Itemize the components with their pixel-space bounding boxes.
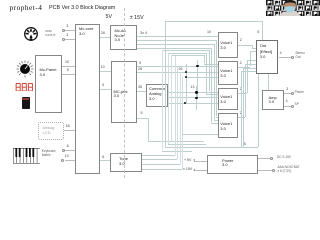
- pin label 26: [138, 68, 142, 72]
- wire Common Analog right b: [168, 97, 218, 98]
- label AAA battery: [278, 166, 300, 174]
- connector keyboard circle 8: [62, 149, 65, 152]
- pin label 10: [65, 155, 69, 159]
- wire tap voice4 channel c: [211, 123, 218, 124]
- wire bus stack 5 from x162: [162, 50, 209, 51]
- block Voice1 3.0: [218, 32, 239, 58]
- wire Tune right 1: [142, 155, 175, 156]
- wire vertical x186: [186, 64, 187, 103]
- block Mc-Panel 3.0: [35, 55, 62, 113]
- pin label 26: [138, 86, 142, 90]
- wire voice4 out 2: [238, 117, 245, 118]
- icon panel knob: [16, 60, 34, 78]
- wire rail y144: [168, 144, 207, 145]
- wire channel vertical a: [204, 55, 205, 63]
- wire tap voice4 channel b: [214, 120, 218, 121]
- wire vertical x197: [197, 60, 198, 98]
- wire into voice4 bottom: [182, 134, 218, 135]
- pin label 4: [280, 52, 282, 56]
- wire MIDI out stub: [65, 39, 75, 40]
- icon MIDI DIN connector: [24, 27, 38, 41]
- wire voice1 out 2: [238, 45, 252, 46]
- wire down x162: [162, 50, 163, 150]
- arrowhead 15V: [193, 169, 195, 171]
- pin label 5: [141, 112, 143, 116]
- wire into Out b: [250, 51, 256, 52]
- junction dot 3: [185, 76, 187, 78]
- block Mc-da NoJe 3.0: [110, 25, 137, 50]
- connector SP circle: [291, 105, 294, 108]
- wire extra into Out e: [243, 68, 244, 147]
- block Mc-core 3.0: [75, 24, 100, 174]
- wire bus stack 6 from x167.5: [168, 53, 207, 54]
- wire Amp to phone 3: [284, 93, 292, 94]
- wire Tune right 3: [142, 164, 180, 165]
- pin label 13: [191, 86, 195, 90]
- wire Mc-core to Tune 6: [100, 160, 111, 161]
- connector keyboard circle 10: [61, 159, 64, 162]
- pin label 5: [139, 62, 141, 66]
- wire into voice2 lower: [186, 77, 218, 78]
- wire MC-jent right 5 to voice2: [137, 66, 218, 67]
- wire MC-jent right 26: [137, 72, 218, 73]
- pin label 4: [286, 100, 288, 104]
- wire voice2 up to out: [250, 51, 251, 66]
- connector MIDI circle 1: [62, 29, 65, 32]
- wire Tune up c: [180, 72, 181, 163]
- wire bus stack 7 from x170.5: [171, 55, 204, 56]
- pin label 8: [67, 145, 69, 149]
- dashed board boundary line: [124, 8, 125, 178]
- wire Tune right 2: [142, 159, 178, 160]
- wire voice4 up to out: [245, 64, 246, 117]
- wire into Out c: [247, 60, 255, 61]
- label +-15V: [183, 168, 192, 172]
- wire MIDI in stub: [65, 30, 75, 31]
- wire extra into Out f: [241, 71, 256, 72]
- block Voice2 3.0: [218, 61, 239, 85]
- block Out (Effect) 3.0: [256, 40, 279, 74]
- icon mini LCD module: [22, 97, 31, 109]
- wire Tune right 4: [142, 169, 183, 170]
- wire rail y150.5: [162, 151, 192, 152]
- pin label 16: [66, 125, 70, 129]
- wire rail y141: [148, 141, 204, 142]
- wire long vertical x165 from top to bottom loop: [165, 21, 166, 148]
- wire down x170.5: [171, 55, 172, 141]
- connector phone circle: [291, 92, 294, 95]
- wire Tune up a: [175, 55, 176, 154]
- wire keyboard 10 stub: [65, 160, 75, 161]
- block Amp 3.0: [262, 90, 284, 110]
- junction dot 1: [196, 65, 198, 67]
- block Tune 3.0: [110, 153, 142, 173]
- block Common Analog 3.0: [146, 84, 168, 107]
- junction dot 6: [184, 102, 186, 104]
- wire Debug LCD to Mc-core 16: [64, 130, 76, 131]
- wire Common Analog right c: [168, 103, 218, 104]
- wire voice2 out 2: [238, 67, 250, 68]
- wire Mc-Panel to Mc-core 5: [62, 74, 76, 75]
- pin label 2: [240, 88, 242, 92]
- wire Common Analog right a: [168, 92, 218, 93]
- wire voice1 down to out: [252, 45, 253, 48]
- pin label 10 voice1: [207, 31, 211, 35]
- wire voice3 out 2: [238, 93, 247, 94]
- block Voice4 3.0: [218, 113, 239, 138]
- label 3x4 bus: [140, 32, 147, 36]
- label Stereo Out: [295, 52, 304, 60]
- wire channel vertical b: [206, 53, 207, 94]
- wire down x167.5: [168, 53, 169, 144]
- pin label 2: [240, 39, 242, 43]
- block Voice3 3.0: [218, 88, 239, 110]
- wire tap voice2 channel: [204, 64, 218, 65]
- icon keyboard matrix: [13, 148, 41, 164]
- wire MC-jent to Common Analog 26: [137, 91, 146, 92]
- wire Mc-da-NoJe bus 4: [137, 48, 212, 49]
- wire MC-jent bottom right 5: [137, 118, 148, 119]
- junction dot 4: [195, 91, 197, 93]
- pin label 5: [244, 143, 246, 147]
- wire down x147: [148, 118, 149, 141]
- wire rail y147 loop to Out: [165, 147, 258, 148]
- wire Tune up b: [177, 66, 178, 159]
- wire voice3 up to out: [247, 60, 248, 93]
- wire Mc-da-NoJe bus 3: [137, 44, 214, 45]
- pin label 5: [257, 31, 259, 35]
- wire into Out a: [252, 48, 256, 49]
- wire vertical x195: [196, 86, 197, 110]
- connector battery circle: [272, 169, 275, 172]
- wire tap voice4 channel a: [216, 117, 218, 118]
- wire Mc-Panel to Mc-core 10: [62, 66, 76, 67]
- wire Mc-core to MC-jent 5: [100, 89, 111, 90]
- wire Tune up d: [182, 77, 183, 169]
- wire tap voice3 channel b: [206, 94, 218, 95]
- wire Power 5V arrow: [194, 161, 207, 162]
- pin label 10: [101, 66, 105, 70]
- wire Mc-core to MC-jent 10: [100, 71, 111, 72]
- pin label 10: [65, 61, 69, 65]
- pin label 6: [102, 156, 104, 160]
- pin label 26: [101, 32, 105, 36]
- wire Mc-da-NoJe bus 2: [137, 40, 217, 41]
- label SP: [295, 103, 299, 107]
- wire top bus horizontal 5: [165, 21, 262, 22]
- connector DC circle: [270, 157, 273, 160]
- title logo prophet-4: [10, 3, 43, 12]
- connector MIDI circle 2: [62, 38, 65, 41]
- label Phone: [295, 91, 304, 95]
- wire channel vertical e: [214, 44, 215, 119]
- wire into Out d: [245, 64, 256, 65]
- icon 7-segment display 888: [15, 83, 34, 92]
- webcam overlay checkerboard with P! logos: [266, 0, 320, 16]
- pin label 2: [240, 62, 242, 66]
- icon mini LCD screen strip: [22, 98, 29, 100]
- wire channel vertical d: [211, 48, 212, 123]
- pin label 5: [67, 69, 69, 73]
- block Debug LCD (dashed): [38, 122, 64, 140]
- title subtitle: [49, 5, 115, 11]
- junction dot 2: [185, 71, 187, 73]
- pin label 2: [240, 112, 242, 116]
- wire Power to battery: [258, 170, 272, 171]
- wire Amp to SP 4: [284, 106, 292, 107]
- pin label 3: [286, 88, 288, 92]
- wire top bus down into Out: [262, 21, 263, 40]
- person head and shoulders: [279, 0, 301, 16]
- wire loop up to Out bottom: [258, 74, 259, 147]
- wire channel vertical f: [216, 40, 217, 116]
- wire Out to stereo out 4: [279, 57, 292, 58]
- label MIDI IN/OUT: [45, 30, 55, 37]
- pin label 26 mid: [179, 68, 183, 72]
- label +5V: [184, 159, 191, 163]
- block MC-jent 3.0: [111, 61, 138, 124]
- label Keyboard Matrix: [42, 150, 56, 158]
- pin label 3: [66, 34, 68, 38]
- connector stereo out circle: [291, 56, 294, 59]
- label DC 9-15V: [277, 156, 291, 160]
- wire keyboard 8 stub: [65, 150, 75, 151]
- block Power 3.0: [207, 155, 258, 174]
- wire Power 15V arrow: [194, 170, 207, 171]
- arrowhead 5V: [193, 159, 195, 161]
- junction dot 5: [195, 97, 197, 99]
- pin label 5: [102, 84, 104, 88]
- wire bus stack 8 from x174.5: [175, 55, 204, 56]
- wire Mc-core to Mc-da-NoJe 26: [100, 37, 110, 38]
- wire Mc-da-NoJe bus 1 into Voice1: [137, 36, 218, 37]
- wire Power to DC jack: [258, 158, 271, 159]
- wire channel vertical c: [209, 50, 210, 91]
- pin label 3: [66, 25, 68, 29]
- wire tap voice3 channel a: [209, 92, 218, 93]
- wire Out bottom to Amp: [268, 74, 269, 90]
- label 5V supply: [106, 14, 112, 20]
- label +-15V supply: [130, 15, 144, 21]
